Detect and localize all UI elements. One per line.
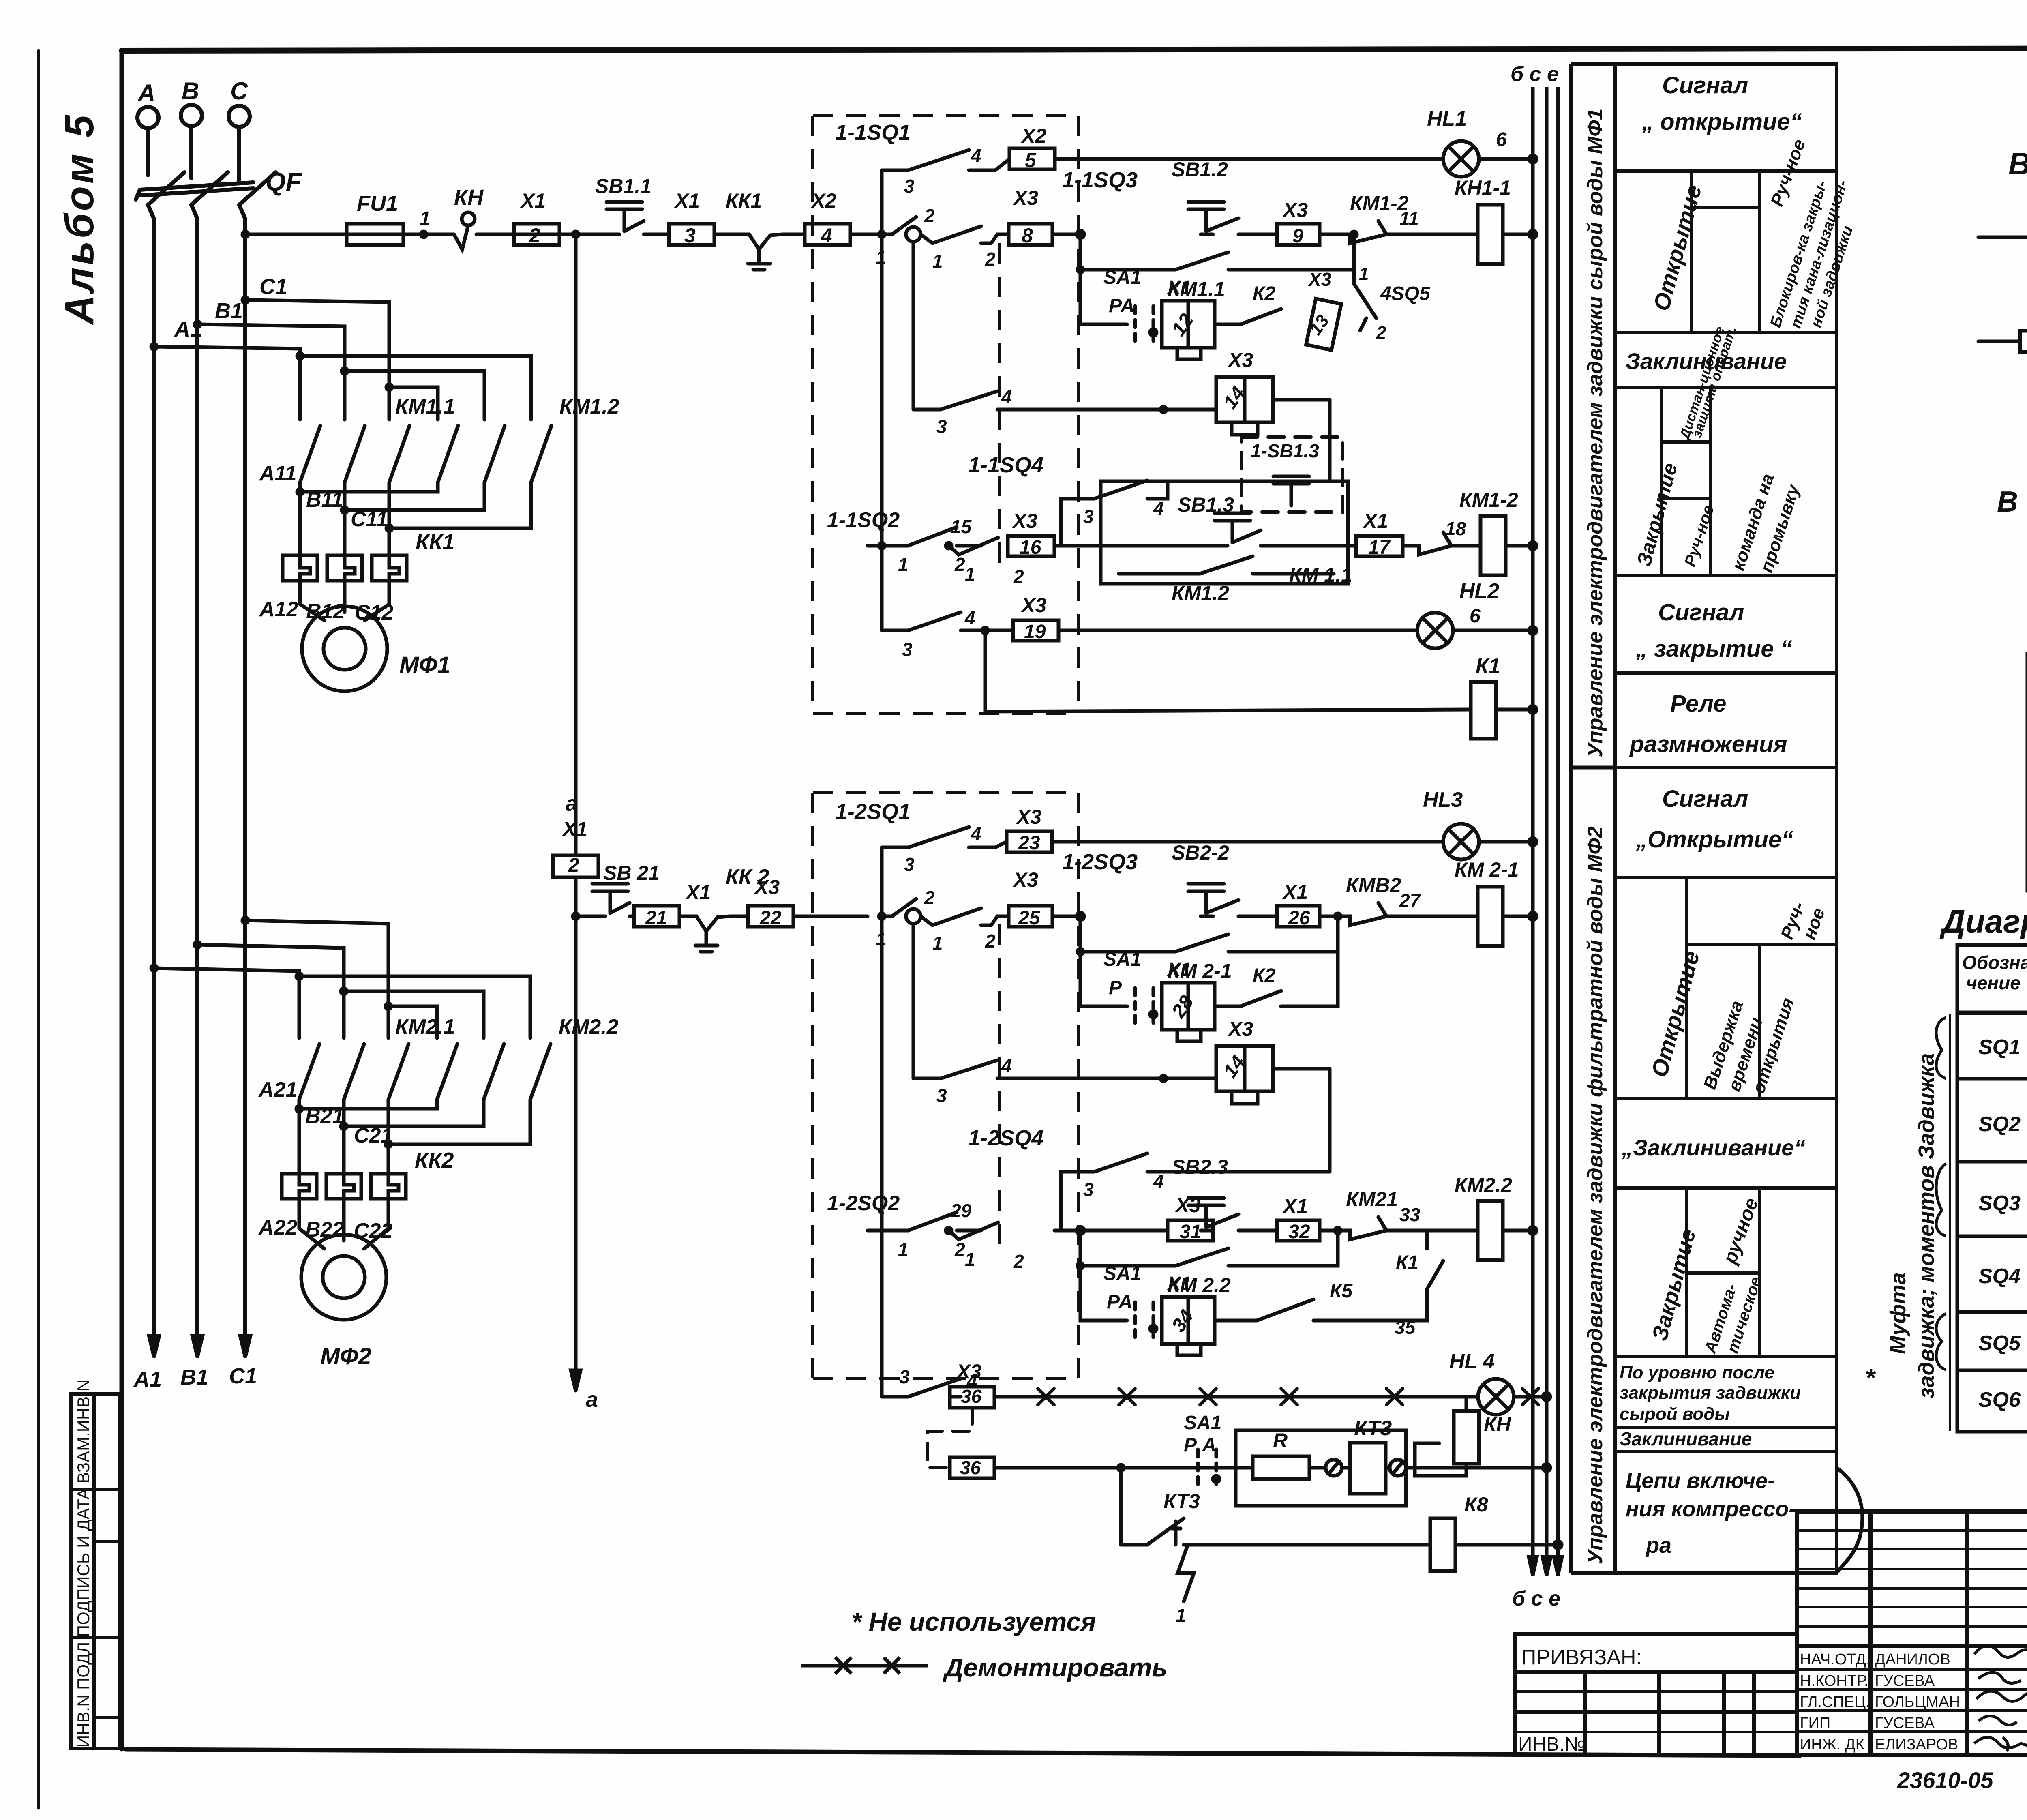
svg-text:1-1SQ2: 1-1SQ2	[827, 508, 900, 532]
coil KM2.2	[1478, 1201, 1503, 1260]
svg-text:сырой воды: сырой воды	[1620, 1404, 1730, 1424]
SQ4-2 contact	[827, 1126, 1536, 1355]
svg-text:а: а	[566, 791, 578, 816]
svg-text:КН: КН	[1484, 1413, 1511, 1436]
svg-text:КК1: КК1	[726, 189, 762, 212]
svg-text:В12: В12	[306, 600, 345, 623]
row: signal open2 bottom	[1615, 876, 1836, 879]
switch SA1 dashes	[1133, 306, 1137, 343]
svg-text:32: 32	[1288, 1221, 1310, 1243]
svg-text:4: 4	[1153, 1171, 1164, 1192]
svg-text:ния компрессо-: ния компрессо-	[1626, 1497, 1796, 1521]
svg-text:ДАНИЛОВ: ДАНИЛОВ	[1875, 1651, 1950, 1668]
svg-text:1: 1	[1359, 264, 1369, 284]
contact 1-1SQ3 1-2	[921, 226, 1009, 243]
motor M1	[302, 606, 387, 691]
closing2 section	[1615, 1355, 1836, 1358]
svg-text:5: 5	[1025, 149, 1037, 171]
terminal X3:23	[1007, 831, 1052, 852]
rowD2	[868, 1212, 981, 1230]
svg-text:SQ5: SQ5	[1978, 1331, 2021, 1355]
svg-text:Заклинивание: Заклинивание	[1620, 1428, 1752, 1449]
svg-text:23610-05: 23610-05	[1897, 1767, 1994, 1793]
svg-text:1-1SQ3: 1-1SQ3	[1062, 168, 1138, 192]
svg-text:SА1: SА1	[1103, 1263, 1141, 1284]
contact K2	[1215, 309, 1281, 324]
svg-text:КМ2.2: КМ2.2	[1455, 1174, 1512, 1196]
svg-text:31: 31	[1180, 1221, 1201, 1243]
row: zaklinivanie3 bottom	[1615, 1450, 1836, 1453]
svg-text:КМВ2: КМВ2	[1346, 874, 1401, 896]
note: demontage symbol	[801, 1657, 928, 1674]
svg-text:В1: В1	[180, 1365, 208, 1389]
terminal X1:21	[634, 906, 679, 927]
svg-text:Х1: Х1	[561, 818, 587, 840]
wire phase B down	[191, 205, 197, 1356]
row: rele bottom = section2 start	[1615, 766, 1836, 769]
button SB2.3	[1188, 1198, 1224, 1227]
svg-text:Х3: Х3	[1227, 1018, 1253, 1040]
svg-text:4: 4	[1001, 386, 1012, 407]
svg-text:Реле: Реле	[1670, 690, 1726, 717]
wire A branch2	[154, 968, 299, 976]
svg-text:А22: А22	[258, 1216, 297, 1239]
svg-text:1: 1	[876, 928, 886, 950]
rowD	[868, 527, 981, 546]
stamp top thick	[1797, 1509, 2027, 1514]
svg-text:SQ6: SQ6	[1978, 1388, 2021, 1412]
wire B21 junction	[342, 1100, 346, 1174]
svg-text:Управление электродвигателем з: Управление электродвигателем задвижки сы…	[1583, 108, 1607, 757]
thermal relay KK2 heater B	[326, 1174, 361, 1199]
svg-text:26: 26	[1288, 907, 1310, 929]
svg-text:МФ1: МФ1	[399, 652, 450, 678]
svg-text:По уровню после: По уровню после	[1620, 1363, 1774, 1383]
contact 1-1SQ1 3-4 (rowA)	[882, 150, 1009, 170]
left stamp strip table	[71, 1394, 120, 1748]
svg-text:НАЧ.ОТД.: НАЧ.ОТД.	[1800, 1651, 1871, 1668]
svg-text:закрытия задвижки: закрытия задвижки	[1620, 1383, 1801, 1403]
node A tap2	[151, 965, 157, 971]
svg-text:Р: Р	[1109, 977, 1122, 999]
lamp HL4	[1478, 1379, 1514, 1415]
terminal X3:36 second	[950, 1457, 994, 1478]
svg-text:К1: К1	[1476, 654, 1500, 678]
svg-text:29: 29	[950, 1200, 972, 1221]
svg-text:Сигнал: Сигнал	[1662, 72, 1748, 99]
svg-text:Х2: Х2	[1020, 124, 1046, 147]
svg-text:1-2SQ2: 1-2SQ2	[827, 1192, 900, 1215]
svg-text:23: 23	[1018, 832, 1040, 854]
svg-text:22: 22	[759, 907, 782, 929]
relay K1 row	[984, 630, 987, 712]
thermal contact KK1	[737, 234, 798, 270]
svg-text:36: 36	[960, 1457, 981, 1478]
signatures scribble	[1974, 1646, 2027, 1751]
svg-text:Диаграмма работы микропереключ: Диаграмма работы микропереключателей.	[1939, 903, 2027, 939]
svg-text:КТ3: КТ3	[1354, 1417, 1392, 1440]
parallel contact KM2.1	[1080, 916, 1338, 952]
wire feeder down from rail	[574, 234, 578, 855]
coil KT3	[1350, 1443, 1386, 1494]
wire	[1978, 236, 2027, 239]
thermal relay KK1 heater C	[372, 555, 407, 581]
svg-text:Х1: Х1	[1282, 1195, 1308, 1218]
svg-text:В1: В1	[215, 299, 243, 323]
svg-text:С22: С22	[354, 1219, 392, 1243]
svg-text:размножения: размножения	[1629, 731, 1787, 757]
svg-text:2: 2	[985, 930, 996, 952]
svg-text:А11: А11	[259, 462, 297, 485]
svg-text:8: 8	[1022, 224, 1033, 247]
svg-text:С21: С21	[354, 1124, 392, 1147]
svg-text:1: 1	[965, 564, 975, 585]
coil KH	[1454, 1411, 1479, 1464]
svg-text:HL 4: HL 4	[1449, 1350, 1495, 1373]
bridge C2	[388, 1006, 437, 1038]
svg-text:3: 3	[1083, 506, 1094, 527]
SQ4 contact	[827, 453, 1536, 605]
bus e	[1556, 87, 1560, 1573]
terminal X3:14 connector2	[1216, 1046, 1273, 1091]
closing section rows	[1615, 574, 1836, 577]
wire B11 junction	[343, 482, 347, 555]
wire rowC	[1111, 408, 1216, 412]
svg-text:SВ1.1: SВ1.1	[595, 175, 651, 197]
node C1 tap2	[242, 918, 248, 923]
terminal X3:16	[1008, 536, 1054, 556]
lamp HL2	[1417, 613, 1453, 648]
SA1 branch2	[1080, 952, 1127, 1006]
wire rowC right stub	[1273, 398, 1330, 402]
svg-text:ГИП: ГИП	[1800, 1715, 1830, 1732]
svg-text:К8: К8	[1464, 1493, 1488, 1516]
svg-text:3: 3	[936, 1085, 947, 1106]
svg-text:2: 2	[924, 205, 935, 226]
svg-text:чение: чение	[1966, 972, 2021, 993]
motor M2	[301, 1235, 386, 1320]
fuse FU1	[347, 224, 403, 245]
button SB1.1	[606, 202, 642, 231]
terminal X3:19	[1013, 620, 1058, 641]
wire B branch2	[197, 945, 344, 1038]
sheet edge line	[37, 51, 40, 1808]
svg-text:1-2SQ3: 1-2SQ3	[1062, 850, 1138, 874]
svg-text:1-SВ1.3: 1-SВ1.3	[1251, 440, 1319, 461]
terminal X1:34 double box	[1162, 1297, 1215, 1344]
svg-text:Муфта: Муфта	[1886, 1273, 1910, 1355]
svg-text:Х3: Х3	[956, 1360, 981, 1383]
node bridge	[297, 353, 303, 359]
wire A1 branch	[154, 347, 300, 356]
svg-text:2: 2	[1013, 1251, 1024, 1272]
svg-text:6: 6	[1496, 129, 1507, 150]
svg-text:КК2: КК2	[415, 1148, 454, 1173]
contact K5	[1215, 1299, 1378, 1321]
svg-text:4: 4	[821, 224, 832, 247]
terminal X1:26	[1277, 906, 1320, 927]
svg-text:С: С	[230, 77, 249, 105]
svg-text:ГЛ.СПЕЦ.: ГЛ.СПЕЦ.	[1800, 1694, 1870, 1711]
svg-text:К1: К1	[1396, 1252, 1418, 1273]
svg-text:К2: К2	[1253, 283, 1276, 304]
svg-text:4: 4	[971, 823, 981, 844]
svg-text:SQ2: SQ2	[1978, 1113, 2021, 1136]
solid box SB1.3/KM1.2	[1101, 481, 1348, 584]
section rows thick	[1957, 1077, 2027, 1081]
thermal relay KK1 heater B	[327, 555, 362, 581]
thermal relay KK2 heater C	[371, 1174, 406, 1199]
svg-text:*: *	[1865, 1363, 1876, 1392]
wire	[403, 233, 454, 236]
svg-text:2: 2	[1013, 566, 1024, 587]
svg-text:QF: QF	[266, 167, 302, 196]
svg-text:Х3: Х3	[1011, 510, 1037, 532]
contact 3-4 rowC	[913, 391, 1111, 409]
svg-text:С11: С11	[351, 508, 388, 531]
svg-text:Х3: Х3	[1012, 868, 1038, 891]
wire B1 branch	[197, 324, 345, 420]
svg-text:1: 1	[932, 933, 943, 954]
svg-text:Х3: Х3	[1012, 187, 1038, 209]
wire	[559, 233, 607, 236]
SA1 branch	[1080, 270, 1127, 324]
svg-text:SА1: SА1	[1103, 267, 1141, 288]
svg-text:ра: ра	[1645, 1533, 1671, 1558]
terminal X1:3	[669, 224, 714, 245]
svg-text:18: 18	[1445, 518, 1466, 539]
terminal X1:12 double box	[1162, 301, 1215, 348]
svg-text:А12: А12	[259, 598, 298, 621]
svg-text:Х3: Х3	[1016, 806, 1041, 828]
svg-text:SВ1.3: SВ1.3	[1178, 493, 1234, 516]
svg-text:РА: РА	[1109, 295, 1135, 317]
contact 1-1SQ1 1-2 (rowB)	[868, 217, 916, 234]
svg-text:HL2: HL2	[1459, 579, 1499, 603]
svg-text:1-2SQ4: 1-2SQ4	[968, 1126, 1043, 1150]
bus c	[1545, 87, 1549, 1573]
svg-text:15: 15	[951, 516, 972, 537]
terminal X2:4 box	[798, 224, 868, 245]
svg-text:КН1-1: КН1-1	[1455, 176, 1511, 199]
signature rows	[1797, 1644, 2027, 1648]
svg-text:SВ 21: SВ 21	[603, 862, 660, 884]
wire phase A drop to QF	[146, 128, 150, 175]
contact KM2-2 NC	[1320, 903, 1449, 925]
terminal X3:22	[748, 906, 793, 927]
svg-text:а: а	[586, 1387, 598, 1412]
frame bottom border	[126, 1749, 1800, 1756]
svg-text:ГУСЕВА: ГУСЕВА	[1875, 1672, 1935, 1689]
svg-text:КМ1.1: КМ1.1	[395, 395, 455, 418]
svg-text:19: 19	[1024, 621, 1046, 643]
node B tap2	[195, 942, 200, 948]
svg-text:1-1SQ1: 1-1SQ1	[835, 120, 911, 145]
rowE HL2	[882, 579, 1536, 739]
parallel contact KM2.2	[1080, 1230, 1338, 1266]
node A1 tap	[151, 344, 157, 349]
row: zaklinivanie bottom	[1615, 386, 1836, 389]
svg-text:б с е: б с е	[1511, 62, 1559, 86]
dashed enclosure 1-1SQ box	[813, 116, 1078, 714]
button SB1.2	[1188, 202, 1224, 231]
svg-text:В схему включения компрессора: В схему включения компрессора (л. ЭМ-10)	[1997, 486, 2027, 518]
svg-text:ЕЛИЗАРОВ: ЕЛИЗАРОВ	[1875, 1736, 1958, 1753]
wire C branch2	[245, 920, 388, 1038]
svg-text:Х1: Х1	[1282, 881, 1308, 903]
svg-text:Х3: Х3	[1020, 594, 1046, 617]
drop from X3:36	[928, 1408, 972, 1468]
contactor KM2.1 poles	[299, 1044, 319, 1100]
svg-text:Сигнал: Сигнал	[1662, 786, 1748, 812]
wire A11 junction	[298, 482, 302, 555]
svg-text:А1: А1	[174, 317, 202, 341]
svg-text:В22: В22	[305, 1218, 344, 1241]
svg-text:Х1: Х1	[1362, 510, 1388, 532]
wire KM2 top bridge	[299, 976, 530, 1038]
row: signal open 1 bottom	[1615, 169, 1836, 173]
wire rail start	[245, 233, 347, 236]
contact K1 NO riser	[1378, 1230, 1443, 1321]
wire C11 junction	[388, 482, 391, 555]
contact 1-2SQ1 1-2 (rowB2)	[882, 899, 916, 916]
wire rowA to lamp	[1055, 157, 1443, 161]
svg-text:А1: А1	[133, 1367, 162, 1391]
svg-text:* Не используется: * Не используется	[851, 1607, 1096, 1636]
narrow rows	[1797, 1531, 2027, 1627]
svg-text:б с е: б с е	[1512, 1587, 1560, 1610]
wavy cut line	[1836, 1468, 1862, 1572]
svg-text:3: 3	[1083, 1179, 1094, 1200]
open2 section	[1615, 1097, 1836, 1100]
svg-text:3: 3	[904, 176, 915, 197]
node rail tap on phase C	[242, 232, 248, 237]
contact 4SQ5	[1354, 270, 1376, 330]
svg-text:А21: А21	[258, 1078, 297, 1102]
stamp outer	[1797, 1511, 2027, 1755]
button SB2.1	[592, 884, 628, 913]
terminal X1:32	[1277, 1220, 1320, 1241]
svg-text:КМ 1.1: КМ 1.1	[1289, 564, 1352, 586]
wire C21 junction	[387, 1100, 390, 1174]
svg-text:27: 27	[1399, 890, 1421, 911]
svg-text:SА1: SА1	[1184, 1412, 1221, 1434]
terminal X3:14 connector	[1216, 377, 1273, 422]
wire rowA2 to lamp	[1052, 840, 1443, 844]
svg-text:2: 2	[954, 1239, 965, 1260]
coil KM1-1	[1478, 205, 1503, 264]
wire KM1.2 pole1 return	[300, 482, 438, 492]
terminal X3:25	[1009, 906, 1052, 927]
pushbutton KH	[462, 212, 475, 225]
contact 1-2SQ1 3-4 (rowA2)	[882, 827, 1007, 847]
bus b	[1531, 87, 1535, 1573]
svg-text:1: 1	[898, 1239, 909, 1260]
1-SB1.3 dashed box	[1241, 437, 1343, 512]
coil K8	[1430, 1518, 1455, 1571]
svg-text:3: 3	[684, 224, 696, 247]
svg-text:SQ1: SQ1	[1978, 1035, 2021, 1059]
svg-text:КТ3: КТ3	[1163, 1490, 1200, 1513]
svg-text:2: 2	[1376, 323, 1386, 343]
table outer	[1615, 64, 1836, 1573]
wire KM1.2 pole2 return	[345, 482, 484, 510]
svg-text:Х3: Х3	[754, 876, 780, 898]
circuit breaker QF blades	[148, 172, 184, 205]
svg-text:4: 4	[964, 607, 975, 628]
svg-text:HL3: HL3	[1423, 788, 1463, 812]
svg-text:ИНВ.№: ИНВ.№	[1518, 1734, 1586, 1755]
contact K2 block2	[1215, 952, 1338, 1006]
svg-text:„Открытие“: „Открытие“	[1635, 826, 1793, 853]
phase terminal B	[181, 105, 202, 126]
svg-text:В схему сигнализации (л. АТХ-4: В схему сигнализации (л. АТХ-4)	[2008, 147, 2027, 181]
bridge B to KM1.2	[345, 371, 484, 420]
arrow feeder bottom	[571, 1370, 581, 1391]
bus bottom arrows	[1529, 1557, 1537, 1575]
svg-text:В21: В21	[305, 1104, 344, 1128]
svg-text:„ открытие“: „ открытие“	[1641, 109, 1802, 135]
arrow phase C bottom	[240, 1336, 250, 1356]
resistor R	[1253, 1456, 1309, 1479]
rowG2 KT3 contact	[1119, 1468, 1123, 1545]
svg-text:Х1: Х1	[1166, 1273, 1191, 1295]
wire C1 branch	[245, 300, 389, 420]
contactor KM1.2 poles	[438, 426, 458, 482]
wires into motor M1	[300, 581, 324, 620]
svg-text:С12: С12	[355, 601, 393, 624]
rowE2 contact 3-4	[882, 1230, 961, 1397]
svg-text:ПРИВЯЗАН:: ПРИВЯЗАН:	[1521, 1646, 1642, 1669]
sub row ruchnoe	[1691, 206, 1759, 209]
terminal 104	[2020, 331, 2027, 352]
phase terminal C	[229, 106, 250, 127]
svg-text:4: 4	[1001, 1055, 1012, 1076]
svg-text:1: 1	[420, 208, 431, 229]
lamp HL3	[1443, 824, 1479, 860]
svg-text:2: 2	[954, 554, 965, 575]
svg-text:SQ4: SQ4	[1978, 1265, 2021, 1288]
svg-text:1: 1	[965, 1249, 975, 1270]
node feeder tap	[573, 232, 579, 237]
contact KM1-2 NC	[1320, 221, 1449, 243]
terminal X3:9	[1277, 224, 1320, 245]
row: open section bottom	[1615, 331, 1836, 334]
svg-text:Н.КОНТР.: Н.КОНТР.	[1800, 1672, 1868, 1689]
PRIVYAZAN table	[1515, 1634, 1797, 1755]
left columns	[1868, 1511, 1873, 1755]
terminal X3:8	[1009, 224, 1052, 245]
wire lamp to bus	[1479, 157, 1533, 161]
svg-text:РА: РА	[1107, 1291, 1133, 1313]
parallel contact KM1.1	[1080, 234, 1354, 270]
svg-text:3: 3	[936, 416, 947, 437]
svg-text:КМ 2-1: КМ 2-1	[1455, 858, 1519, 881]
arrow phase A bottom	[149, 1336, 159, 1356]
svg-text:SА1: SА1	[1103, 949, 1141, 970]
header bottom	[1957, 1011, 2027, 1015]
terminal X1:2	[514, 224, 559, 245]
svg-text:2: 2	[924, 887, 935, 908]
bridge C to KM1.2	[389, 387, 438, 420]
svg-text:Х3: Х3	[1307, 269, 1332, 290]
contact KM1.1 NC	[1403, 532, 1463, 555]
svg-text:В11: В11	[306, 488, 343, 512]
svg-text:ГУСЕВА: ГУСЕВА	[1875, 1715, 1935, 1732]
wire	[714, 233, 737, 236]
svg-text:Альбом 5: Альбом 5	[57, 113, 102, 326]
rowF2 wire	[994, 1466, 1232, 1470]
